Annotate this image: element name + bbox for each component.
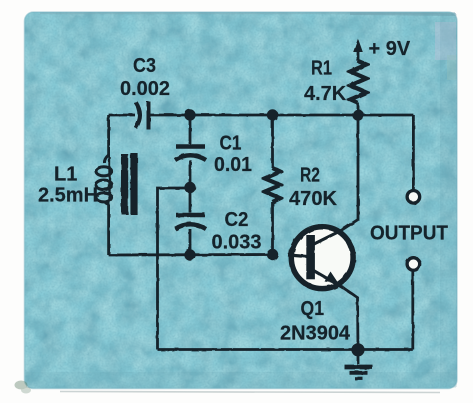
junction node top R2	[267, 109, 278, 120]
junction node C2 bottom	[184, 249, 195, 260]
junction node ground	[351, 343, 364, 356]
wire output lower drop	[411, 271, 414, 350]
wire R1 bottom stub	[357, 103, 360, 115]
ground	[345, 367, 373, 378]
svg-text:2.5mH: 2.5mH	[38, 185, 98, 207]
wire R1 supply stub	[357, 51, 360, 61]
corner smudge	[15, 381, 32, 394]
inductor L1	[96, 155, 112, 204]
wire C1 bottom stub	[189, 160, 192, 188]
capacitor C2	[175, 215, 206, 229]
svg-text:C2: C2	[225, 209, 249, 231]
wire C2 bottom stub	[189, 229, 192, 255]
transistor Q1	[288, 227, 353, 289]
svg-text:0.01: 0.01	[214, 154, 252, 176]
wire coil spine	[108, 157, 110, 202]
junction node top R1	[352, 109, 363, 120]
L1 core bars	[121, 153, 138, 215]
output terminal lower	[407, 258, 420, 271]
junction node top C3/C1	[184, 109, 195, 120]
svg-text:0.002: 0.002	[120, 78, 170, 100]
svg-text:4.7K: 4.7K	[304, 83, 347, 105]
svg-text:2N3904: 2N3904	[280, 323, 351, 345]
bottom scan shadow	[60, 392, 440, 393]
svg-text:OUTPUT: OUTPUT	[370, 223, 448, 245]
wire C2 top stub	[189, 188, 192, 213]
wire left branch down to L1	[107, 115, 110, 157]
junction node base	[267, 249, 278, 260]
wire L1 bottom	[107, 202, 110, 255]
capacitor C3	[136, 102, 149, 130]
resistor R1	[350, 61, 366, 103]
svg-text:C1: C1	[220, 133, 242, 155]
svg-text:0.033: 0.033	[212, 232, 262, 254]
svg-text:+ 9V: + 9V	[369, 38, 411, 60]
top-right lavender patch	[435, 22, 456, 60]
wire R2 top stub	[271, 115, 274, 168]
wire tap to ground	[158, 188, 191, 350]
svg-text:Q1: Q1	[301, 298, 325, 320]
svg-text:L1: L1	[54, 164, 77, 186]
junction node C1-C2 tap	[184, 182, 195, 193]
svg-text:R2: R2	[300, 165, 320, 187]
wire collector drop	[341, 115, 358, 231]
wire top rail	[109, 114, 414, 117]
resistor R2	[265, 168, 281, 202]
wire output upper drop	[412, 115, 415, 190]
output terminal upper	[407, 191, 420, 204]
svg-text:470K: 470K	[289, 188, 338, 210]
supply arrow +9V	[353, 39, 363, 53]
wire ground stub	[357, 350, 360, 365]
wire R2 bottom stub	[271, 202, 274, 255]
capacitor C1	[175, 147, 206, 161]
top edge darker line	[40, 12, 455, 14]
svg-text:R1: R1	[311, 58, 332, 80]
wire emitter drop	[344, 288, 359, 350]
wire bottom rail	[158, 348, 413, 351]
wire C1 top stub	[189, 115, 192, 144]
wire tank bottom	[109, 253, 273, 256]
svg-text:C3: C3	[133, 55, 156, 77]
